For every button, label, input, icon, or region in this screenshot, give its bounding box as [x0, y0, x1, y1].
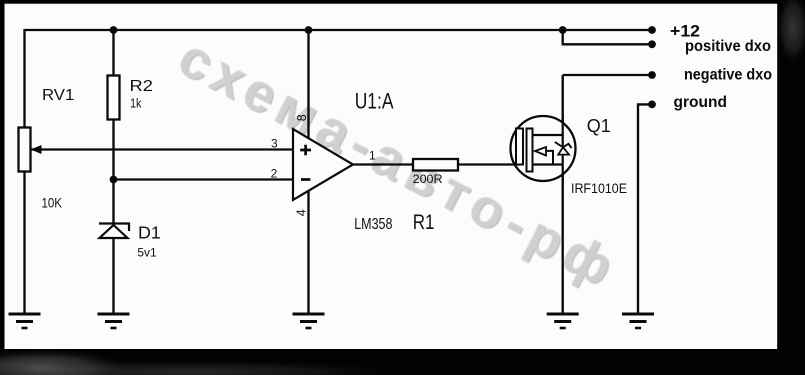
- wire D1 anode to ground: [112, 237, 114, 314]
- op-amp minus input symbol: [301, 178, 310, 181]
- ground symbol Q1 source: [547, 314, 579, 328]
- resistor R1 body: [413, 159, 458, 171]
- svg-text:10K: 10K: [42, 194, 63, 210]
- Q1 substrate arrow: [535, 147, 546, 156]
- svg-text:LM358: LM358: [354, 216, 392, 233]
- junction dot rail/positive branch: [559, 26, 567, 34]
- wire positive dxo branch: [563, 30, 652, 44]
- svg-text:positive dxo: positive dxo: [685, 38, 771, 55]
- potentiometer RV1 body: [19, 128, 31, 172]
- Q1 body diode cathode mark: [555, 142, 572, 148]
- terminal dot positive dxo: [648, 40, 656, 48]
- wire R2 bottom to D1: [112, 119, 114, 224]
- svg-text:4: 4: [294, 209, 308, 216]
- svg-text:1k: 1k: [130, 97, 142, 111]
- Q1 channel plate: [527, 129, 533, 172]
- zener diode D1 cathode bar: [99, 224, 129, 232]
- svg-text:R1: R1: [413, 210, 435, 234]
- svg-text:RV1: RV1: [42, 87, 74, 104]
- ground symbol D1: [98, 314, 130, 328]
- resistor R2 body: [108, 76, 120, 120]
- wire left branch down to RV1: [23, 29, 25, 128]
- Q1 source stub: [533, 163, 563, 165]
- Q1 gate plate: [516, 129, 523, 165]
- transistor Q1 body circle: [511, 116, 576, 181]
- terminal dot ground: [648, 101, 656, 109]
- wire top +12 rail: [25, 29, 653, 31]
- ground symbol terminal: [622, 314, 654, 328]
- svg-text:Q1: Q1: [587, 115, 611, 136]
- junction dot rail/R2: [110, 26, 118, 34]
- wire ground terminal branch: [638, 104, 652, 314]
- svg-text:negative dxo: negative dxo: [684, 67, 772, 84]
- potentiometer RV1 wiper arrowhead: [31, 145, 42, 154]
- Q1 substrate connection: [546, 151, 553, 165]
- svg-text:8: 8: [295, 114, 309, 121]
- svg-text:200R: 200R: [413, 173, 443, 186]
- Q1 body diode triangle: [558, 147, 569, 154]
- svg-text:5v1: 5v1: [137, 246, 157, 260]
- svg-text:U1:A: U1:A: [355, 88, 394, 113]
- svg-text:D1: D1: [138, 223, 161, 243]
- zener diode D1 triangle: [100, 225, 128, 238]
- wire opamp power rail vertical: [307, 30, 309, 314]
- ground symbol opamp: [293, 314, 325, 328]
- wire R1 to Q1 gate: [457, 163, 520, 165]
- svg-text:3: 3: [271, 137, 278, 151]
- junction dot node pin2/D1: [110, 176, 118, 184]
- terminal dot +12: [648, 26, 656, 34]
- svg-text:1: 1: [369, 149, 376, 163]
- svg-text:IRF1010E: IRF1010E: [571, 180, 627, 196]
- ground symbol RV1: [9, 314, 41, 328]
- watermark: [169, 27, 630, 302]
- wire Q1 drain-source vertical: [562, 75, 564, 314]
- svg-text:ground: ground: [674, 94, 728, 111]
- op-amp U1:A triangle: [293, 129, 353, 200]
- wire node to opamp pin 2: [114, 178, 294, 180]
- wire negative dxo to Q1 drain: [563, 74, 652, 76]
- Q1 gate lead inside body: [514, 163, 520, 165]
- junction dot rail/opamp power: [305, 26, 313, 34]
- op-amp plus input symbol: [300, 145, 311, 156]
- Q1 drain-source line inside body: [562, 115, 564, 182]
- wire RV1 bottom to ground: [23, 171, 25, 314]
- terminal dot negative dxo: [648, 71, 656, 79]
- wire R2 branch from rail: [112, 30, 114, 76]
- wire RV1 wiper to opamp pin 3: [31, 148, 293, 150]
- svg-text:R2: R2: [130, 78, 154, 95]
- svg-text:2: 2: [271, 167, 278, 181]
- wire opamp output to R1: [353, 163, 413, 165]
- Q1 drain stub: [533, 134, 563, 136]
